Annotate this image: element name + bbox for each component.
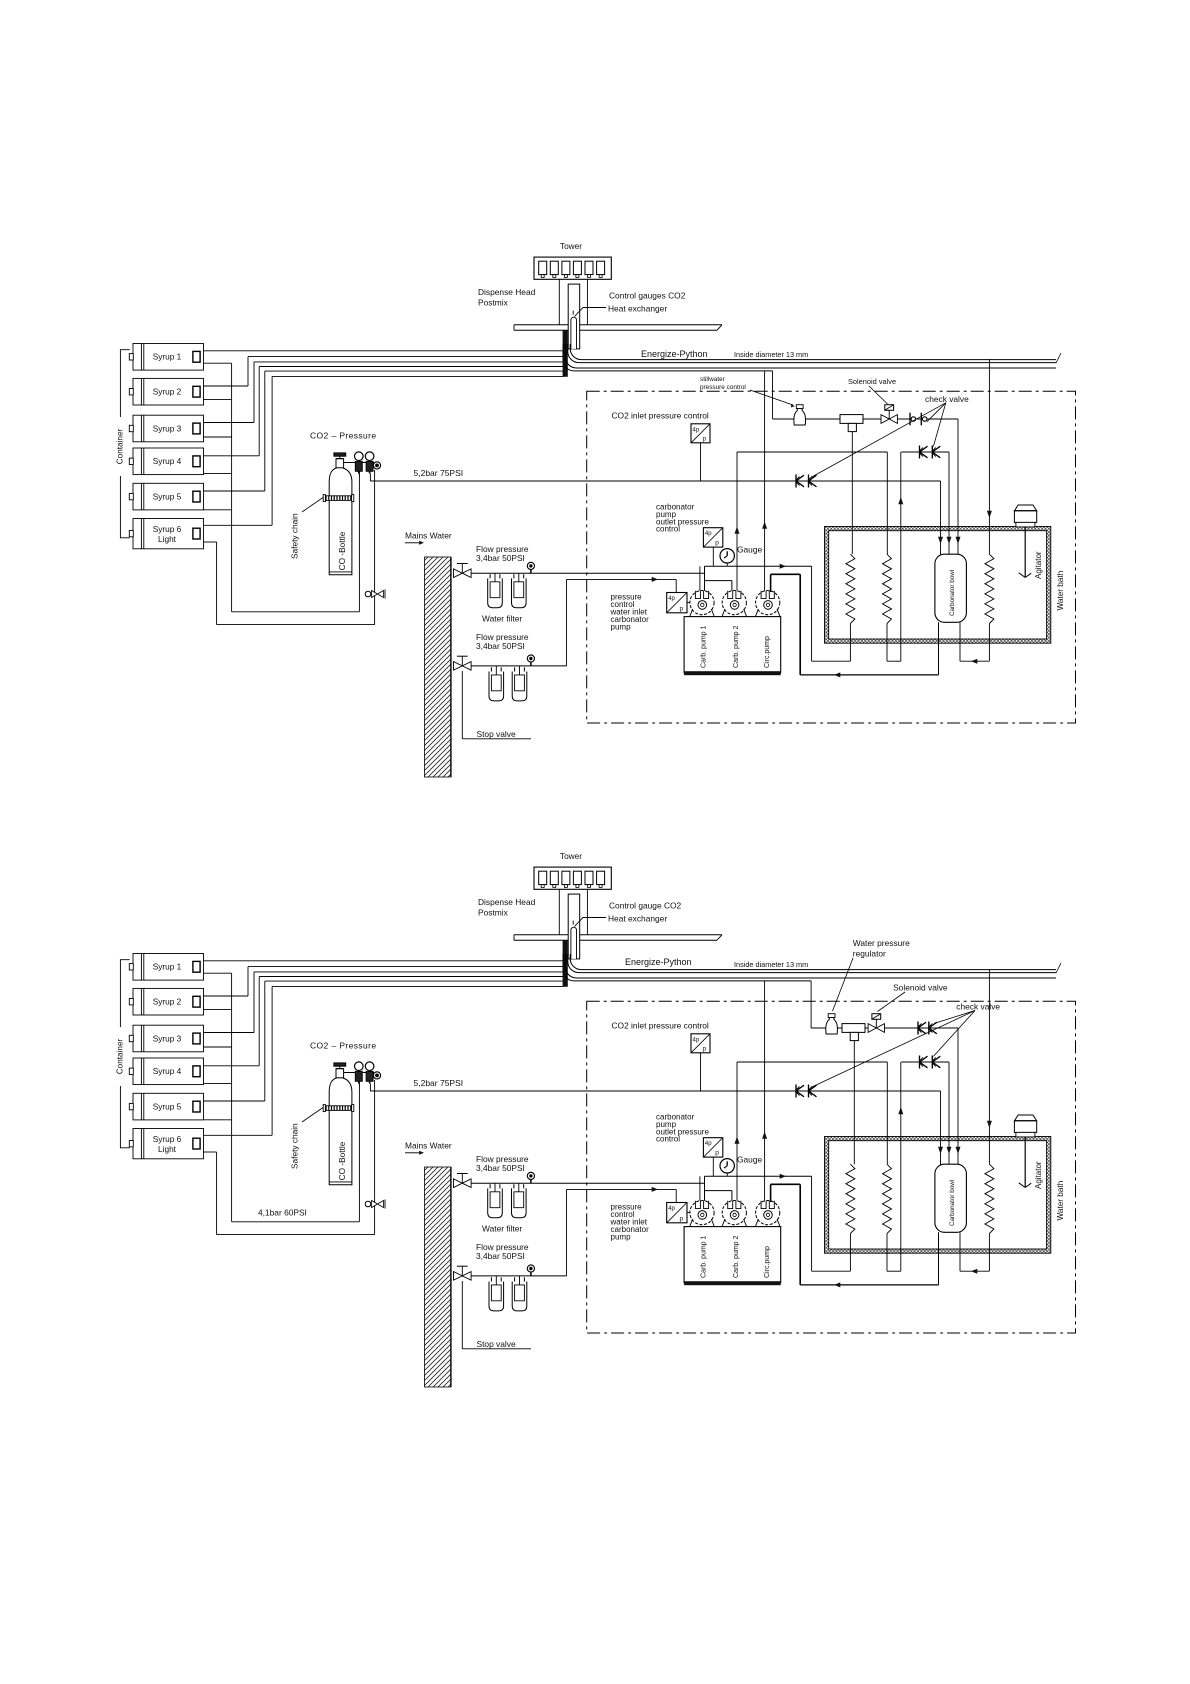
svg-text:control: control xyxy=(656,525,680,534)
svg-text:pump: pump xyxy=(611,623,632,632)
svg-text:Syrup 2: Syrup 2 xyxy=(153,997,182,1007)
svg-text:CO2 inlet pressure control: CO2 inlet pressure control xyxy=(612,1021,709,1031)
svg-text:Syrup 4: Syrup 4 xyxy=(153,456,182,466)
svg-text:Carb. pump 2: Carb. pump 2 xyxy=(733,1235,740,1278)
svg-text:pressure control: pressure control xyxy=(700,384,746,391)
svg-text:3,4bar 50PSI: 3,4bar 50PSI xyxy=(476,553,525,563)
svg-text:p: p xyxy=(680,1215,684,1222)
svg-text:Stop valve: Stop valve xyxy=(477,729,516,739)
svg-text:CO2 – Pressure: CO2 – Pressure xyxy=(310,1041,377,1051)
svg-text:5,2bar 75PSI: 5,2bar 75PSI xyxy=(414,468,464,478)
svg-text:Circ.pump: Circ.pump xyxy=(764,1246,771,1278)
svg-text:Energize-Python: Energize-Python xyxy=(625,957,692,967)
svg-text:Tower: Tower xyxy=(560,851,582,861)
svg-text:5,2bar 75PSI: 5,2bar 75PSI xyxy=(414,1078,464,1088)
svg-text:p: p xyxy=(715,540,719,547)
svg-text:Heat exchanger: Heat exchanger xyxy=(608,304,667,314)
svg-text:Control gauge CO2: Control gauge CO2 xyxy=(609,901,682,911)
svg-text:Syrup 5: Syrup 5 xyxy=(153,491,182,501)
svg-text:p: p xyxy=(703,435,707,442)
svg-text:Inside diameter 13 mm: Inside diameter 13 mm xyxy=(734,350,808,359)
svg-text:Solenoid valve: Solenoid valve xyxy=(893,983,948,993)
svg-text:CO2 – Pressure: CO2 – Pressure xyxy=(310,431,377,441)
svg-text:Carbonator bowl: Carbonator bowl xyxy=(949,1180,956,1226)
svg-text:Tower: Tower xyxy=(560,241,582,251)
svg-text:Safety chain: Safety chain xyxy=(289,1123,299,1169)
svg-text:Agitator: Agitator xyxy=(1034,551,1043,579)
svg-text:Water pressure: Water pressure xyxy=(853,938,910,948)
svg-text:pump: pump xyxy=(611,1233,632,1242)
svg-text:Water bath: Water bath xyxy=(1056,1180,1065,1220)
svg-text:Control gauges CO2: Control gauges CO2 xyxy=(609,291,686,301)
svg-text:Syrup 3: Syrup 3 xyxy=(153,423,182,433)
svg-text:CO2 inlet pressure control: CO2 inlet pressure control xyxy=(612,411,709,421)
svg-text:Syrup 2: Syrup 2 xyxy=(153,387,182,397)
svg-text:check valve: check valve xyxy=(956,1001,1000,1011)
svg-text:Syrup 4: Syrup 4 xyxy=(153,1066,182,1076)
svg-text:Inside diameter 13 mm: Inside diameter 13 mm xyxy=(734,960,808,969)
svg-text:Postmix: Postmix xyxy=(478,298,509,308)
svg-text:Gauge: Gauge xyxy=(737,1155,762,1165)
svg-text:Agitator: Agitator xyxy=(1034,1161,1043,1189)
svg-text:3,4bar 50PSI: 3,4bar 50PSI xyxy=(476,641,525,651)
svg-text:CO -Bottle: CO -Bottle xyxy=(337,1141,347,1180)
svg-text:Syrup 5: Syrup 5 xyxy=(153,1101,182,1111)
svg-text:Syrup 6: Syrup 6 xyxy=(153,524,182,534)
svg-text:Container: Container xyxy=(115,1038,124,1074)
svg-text:4p: 4p xyxy=(693,427,700,433)
svg-text:Dispense Head: Dispense Head xyxy=(478,287,536,297)
svg-text:stillwater: stillwater xyxy=(700,376,726,383)
svg-text:Water filter: Water filter xyxy=(482,614,522,624)
svg-text:Stop valve: Stop valve xyxy=(477,1339,516,1349)
svg-text:3,4bar 50PSI: 3,4bar 50PSI xyxy=(476,1251,525,1261)
svg-text:Energize-Python: Energize-Python xyxy=(641,349,708,359)
svg-text:Light: Light xyxy=(158,534,177,544)
svg-text:Mains Water: Mains Water xyxy=(405,531,452,541)
svg-text:p: p xyxy=(715,1150,719,1157)
svg-text:Syrup 1: Syrup 1 xyxy=(153,352,182,362)
svg-text:Gauge: Gauge xyxy=(737,545,762,555)
svg-text:Circ.pump: Circ.pump xyxy=(764,636,771,668)
svg-text:Safety chain: Safety chain xyxy=(289,513,299,559)
svg-text:p: p xyxy=(680,605,684,612)
svg-text:Syrup 6: Syrup 6 xyxy=(153,1134,182,1144)
svg-text:4,1bar 60PSI: 4,1bar 60PSI xyxy=(258,1208,307,1218)
svg-text:Syrup 3: Syrup 3 xyxy=(153,1033,182,1043)
svg-text:Postmix: Postmix xyxy=(478,908,509,918)
svg-text:Water filter: Water filter xyxy=(482,1224,522,1234)
svg-text:CO -Bottle: CO -Bottle xyxy=(337,531,347,570)
svg-text:3,4bar 50PSI: 3,4bar 50PSI xyxy=(476,1163,525,1173)
svg-text:Mains Water: Mains Water xyxy=(405,1141,452,1151)
svg-text:4p: 4p xyxy=(668,596,675,602)
svg-text:4p: 4p xyxy=(705,531,712,537)
svg-text:Container: Container xyxy=(115,428,124,464)
svg-text:Carbonator bowl: Carbonator bowl xyxy=(949,570,956,616)
svg-text:Carb. pump 1: Carb. pump 1 xyxy=(701,1235,708,1278)
svg-text:p: p xyxy=(703,1045,707,1052)
svg-text:Light: Light xyxy=(158,1144,177,1154)
svg-text:control: control xyxy=(656,1135,680,1144)
svg-text:4p: 4p xyxy=(668,1206,675,1212)
svg-text:Water bath: Water bath xyxy=(1056,570,1065,610)
svg-text:Dispense Head: Dispense Head xyxy=(478,897,536,907)
svg-text:Syrup 1: Syrup 1 xyxy=(153,962,182,972)
svg-text:Carb. pump 2: Carb. pump 2 xyxy=(733,625,740,668)
svg-text:4p: 4p xyxy=(705,1141,712,1147)
svg-text:Heat exchanger: Heat exchanger xyxy=(608,914,667,924)
svg-text:check valve: check valve xyxy=(925,394,969,404)
svg-text:regulator: regulator xyxy=(853,948,886,958)
svg-text:Solenoid valve: Solenoid valve xyxy=(848,377,896,386)
svg-text:Carb. pump 1: Carb. pump 1 xyxy=(701,625,708,668)
svg-text:4p: 4p xyxy=(693,1037,700,1043)
